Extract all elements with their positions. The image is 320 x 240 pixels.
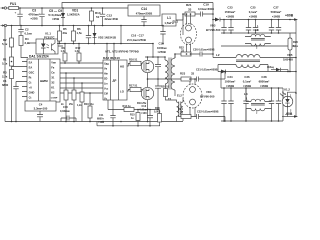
capacitor C28b sym [276,88,281,121]
label C16-C17 [127,34,146,42]
svg-text:×160В: ×160В [226,84,234,88]
wire top rail +12V [26,7,128,9]
svg-text:1000мк*: 1000мк* [225,80,237,84]
svg-text:0,1мк: 0,1мк [25,32,33,36]
svg-text:Fв: Fв [51,67,55,70]
resistor R3 [2,67,22,122]
svg-text:×160В: ×160В [249,15,257,19]
boxed label C4 [25,101,56,122]
wire upper bus y2.5 [62,3,213,9]
svg-text:CM: CM [104,92,108,95]
svg-text:0,022мк: 0,022мк [60,109,70,113]
svg-text:+60В: +60В [285,14,294,18]
svg-text:C20 0,01мк×600В: C20 0,01мк×600В [193,48,215,52]
snubber R24 [178,107,191,119]
wire rail y33 [221,32,296,34]
resistor R1 [2,57,14,70]
wire signal rail [97,122,160,126]
label C25 [249,6,258,19]
capacitor C27 sym [269,20,274,34]
fuse FU1 [7,2,26,10]
resistor R13 [90,8,101,26]
resistor R12 [75,44,82,64]
capacitor C16 [155,57,161,79]
snubber R23 [180,72,195,82]
capacitor C10 [60,105,76,122]
svg-text:ДР: ДР [113,79,117,83]
svg-text:DA1 SG1524: DA1 SG1524 [29,55,49,59]
output +60V [220,14,298,21]
capacitor C23 sym [221,20,226,34]
label C24 [225,75,237,88]
svg-text:ШИМ: ШИМ [40,79,48,83]
resistor R6 [72,26,83,44]
diode VD3 [206,18,221,32]
svg-text:0,01мк×600В: 0,01мк×600В [198,7,214,11]
svg-text:0,1мк*: 0,1мк* [249,10,258,14]
capacitor C28 sym [269,88,274,121]
wire HV feed [145,44,165,58]
svg-text:2×0,1мк×250В: 2×0,1мк×250В [127,38,146,42]
svg-text:Cв: Cв [51,72,55,75]
svg-text:×25В: ×25В [52,17,60,21]
capacitor C11 [97,100,116,126]
label C28 [259,75,271,88]
boxed label L1 [162,14,183,26]
svg-text:5,1к: 5,1к [2,62,8,66]
svg-text:C21 0,01мк×600В: C21 0,01мк×600В [196,68,218,72]
choke L4 [244,88,272,121]
svg-text:C27: C27 [273,6,279,10]
diode VD2 [93,26,117,44]
svg-text:Общ: Общ [267,65,274,69]
MOSFET VT2 [141,79,153,122]
svg-text:GND: GND [29,91,35,95]
label C26 [243,75,252,88]
svg-text:1N5408: 1N5408 [283,57,293,61]
svg-text:Vв: Vв [104,67,108,70]
snubber C22 [191,110,225,121]
svg-text:DA2 IR2110: DA2 IR2110 [103,56,120,60]
svg-text:5,1к: 5,1к [2,42,8,46]
svg-text:R26: R26 [293,40,298,44]
svg-text:Lin: Lin [104,82,108,85]
svg-text:×160В: ×160В [226,15,234,19]
optocoupler U1.2 [280,87,296,116]
svg-text:C22 0,01мк×600В: C22 0,01мк×600В [197,110,219,114]
resistor R4 [19,36,30,58]
svg-text:6800мк*: 6800мк* [259,80,271,84]
svg-text:1,5КЕ62А: 1,5КЕ62А [67,13,80,17]
svg-text:U1.2: U1.2 [284,87,290,91]
wire x183 lamp feed [182,14,184,35]
svg-text:EA: EA [29,66,33,70]
svg-text:33к: 33к [63,31,68,35]
snubber C20 [191,48,215,57]
svg-text:×250В: ×250В [158,50,166,54]
boxed label C14 [128,5,160,26]
svg-text:R16 51: R16 51 [129,57,138,61]
resistor R5 [58,26,68,44]
svg-text:OSC: OSC [29,71,35,75]
svg-text:R24: R24 [178,107,183,111]
svg-text:1500мк*: 1500мк* [225,10,237,14]
svg-text:1,5к: 1,5к [77,31,83,35]
IC DA2 IR2110 [99,56,127,101]
svg-text:EA: EA [29,61,33,65]
capacitor C1 [2,79,22,122]
svg-text:C10: C10 [63,105,68,109]
svg-text:Hin: Hin [104,72,108,75]
capacitor C27b sym [276,20,281,34]
wire bottom rail [5,121,183,123]
capacitor C13 [140,105,154,126]
wire C12 drop [120,26,122,44]
wire x213 drop [212,3,214,58]
wire rail y46 [221,45,296,47]
wire bottom rail right [221,120,283,122]
svg-text:FU1: FU1 [10,2,16,6]
svg-text:2,2к: 2,2к [2,75,8,79]
svg-text:Ct: Ct [29,96,32,100]
lamp EL1 [181,14,197,54]
svg-text:Vдд: Vдд [104,62,109,65]
resistor R17 [127,83,142,91]
svg-text:1,2к: 1,2к [77,104,82,107]
wire midpoint [148,78,182,80]
svg-text:6800: 6800 [2,83,9,87]
svg-text:C23: C23 [227,6,233,10]
output common [267,65,288,72]
transformer T1 [165,54,175,96]
svg-text:R23: R23 [180,72,186,76]
shunt R18 [154,107,162,126]
svg-text:+U: +U [29,86,33,90]
optocoupler U1.1 [28,32,63,54]
snubber C19 [195,3,214,17]
wire DA2 supply [107,44,114,61]
capacitor C3 [15,8,41,26]
label C27 [271,6,283,19]
svg-text:51: 51 [96,15,100,19]
capacitor C24b sym [228,88,233,121]
wire common rail y25.5 [7,25,165,27]
capacitor C17 [155,79,161,110]
svg-text:C28: C28 [261,75,267,79]
resistor R15 [130,110,140,126]
svg-text:+: + [15,11,17,15]
svg-text:L1: L1 [167,16,171,20]
diode VD5 label [283,53,293,61]
snubber R21 [183,3,195,16]
terminal X2 (input bottom) [1,24,7,26]
capacitor C23b sym [228,20,233,34]
snubber C21 [191,68,225,82]
svg-text:VT1, VT2 IRF640 ТР76Ф: VT1, VT2 IRF640 ТР76Ф [105,50,139,54]
wire rail y71.5 [218,71,296,73]
capacitor C25b sym [253,20,258,34]
IC DA1 SG1524 [22,55,60,102]
label C18 [157,41,167,54]
resistor R9 [61,44,68,64]
snubber R22 [175,46,191,56]
svg-text:Rt: Rt [29,76,32,80]
svg-text:22мк×35В: 22мк×35В [105,17,118,21]
output -60V [282,112,298,118]
svg-text:VD2 1N5341В: VD2 1N5341В [98,36,116,40]
svg-text:BYV96-500: BYV96-500 [206,28,221,32]
svg-text:C24: C24 [227,75,233,79]
svg-text:SD: SD [104,77,108,80]
svg-text:L3: L3 [255,28,259,32]
wire left common drop [4,26,6,122]
svg-text:-60В: -60В [285,112,293,116]
lamp EL2 [177,79,202,117]
wire bundle DA1-DA2 [60,63,99,93]
resistor R7 [61,73,68,122]
svg-text:1000мк: 1000мк [157,46,167,50]
resistor R10 [84,93,94,122]
capacitor C25 sym [246,20,251,34]
svg-text:×160В: ×160В [260,84,268,88]
wire right rail x296 [295,20,297,117]
svg-text:Ct: Ct [29,81,32,85]
svg-text:×160В: ×160В [272,15,280,19]
resistor R11 [77,83,84,122]
choke L2 [213,53,296,72]
svg-text:Vсс: Vсс [104,87,109,90]
capacitor C5-C9 [39,8,63,26]
svg-text:0,1мк*: 0,1мк* [243,80,252,84]
svg-text:470мк×250В: 470мк×250В [136,11,152,15]
MOSFET VT1 [141,57,153,79]
svg-text:C19: C19 [203,3,209,7]
capacitor C2 [18,26,32,36]
wire rail y88 [221,72,283,122]
svg-text:EL1: EL1 [173,20,179,24]
svg-text:C26: C26 [244,75,250,79]
capacitor C24 sym [221,88,226,121]
svg-text:R17 51: R17 51 [129,83,138,87]
svg-text:33: 33 [188,8,192,12]
svg-text:0,005: 0,005 [154,110,161,113]
capacitor C12 [100,8,118,26]
capacitor C15 [86,26,91,44]
capacitor C18 [160,26,165,44]
wire T1 primary taps [174,54,176,58]
svg-text:BYV96-500: BYV96-500 [200,94,215,98]
choke L3 [245,25,271,50]
wire mid rail y43.5 [57,43,153,45]
svg-text:33: 33 [191,72,195,76]
svg-text:L2: L2 [216,53,220,57]
zener VD1 [61,8,80,26]
svg-text:COMP: COMP [51,98,58,100]
resistor R26 [288,33,299,72]
svg-text:5000мк*: 5000мк* [271,10,283,14]
resistor R8 [69,78,76,122]
svg-text:C14: C14 [141,7,147,11]
svg-text:C25: C25 [250,6,256,10]
svg-text:3,3мк×100: 3,3мк×100 [34,107,48,111]
svg-text:R10 51к: R10 51к [84,102,94,106]
terminal X1 (input top) [1,7,7,9]
svg-text:Vип: Vип [51,62,56,65]
label C23 [225,6,237,19]
svg-text:×100: ×100 [141,112,147,115]
resistor R20 [161,84,170,100]
resistor R16 [127,57,142,66]
capacitor C26 sym [243,88,248,121]
svg-text:×25В: ×25В [30,17,38,21]
svg-text:EL2: EL2 [177,94,182,98]
current transformer T2 [168,97,183,122]
resistor R2 [2,26,14,58]
svg-text:×160В: ×160В [243,84,251,88]
svg-text:R21: R21 [186,3,192,7]
diode VD4 [200,70,226,99]
resistor R14 [108,100,160,112]
